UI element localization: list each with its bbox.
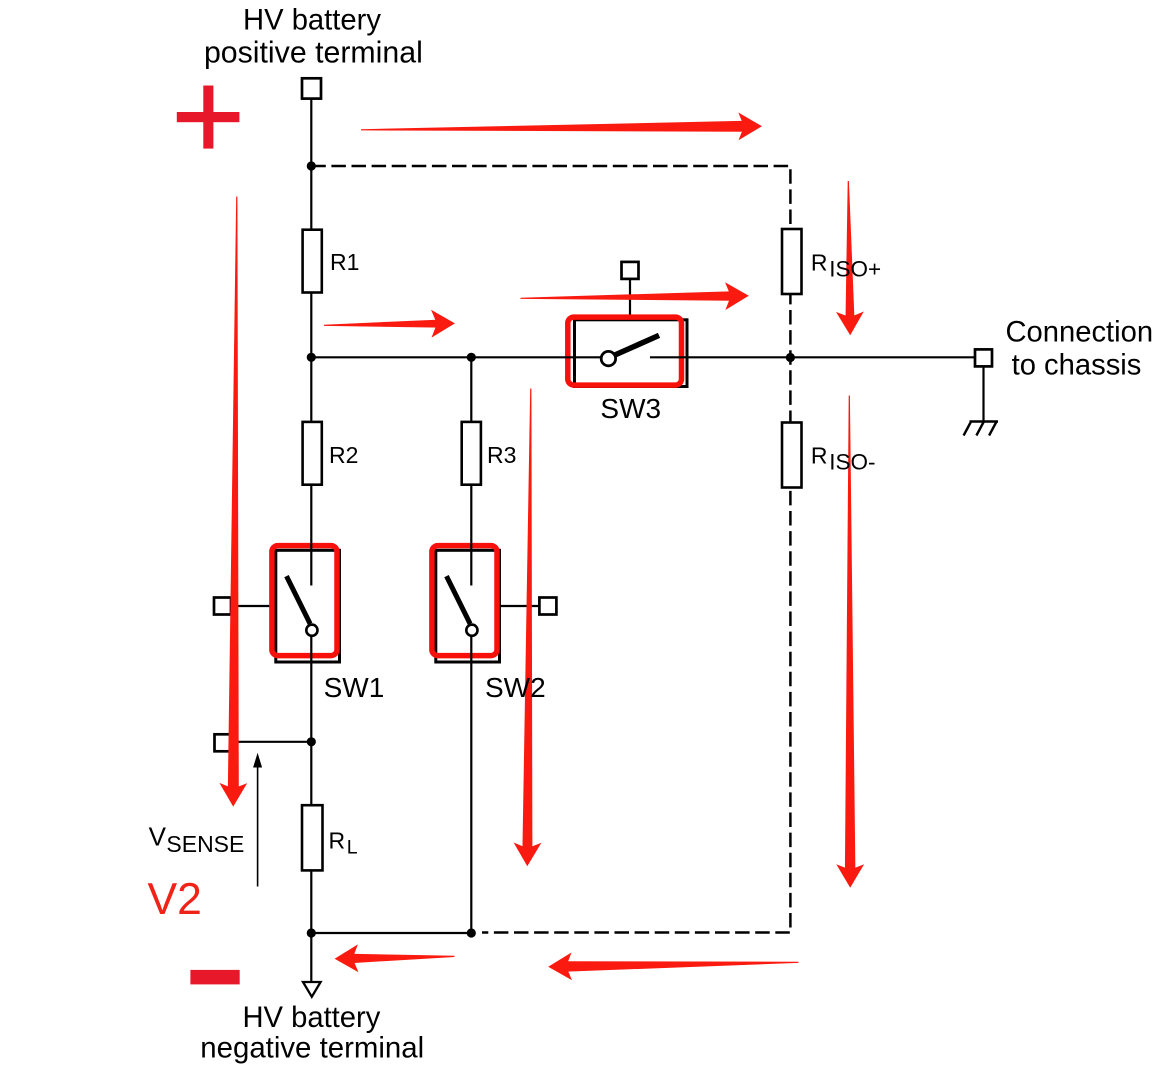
svg-text:HV battery: HV battery [242,1002,380,1034]
svg-text:ISO+: ISO+ [829,256,881,281]
svg-text:L: L [347,837,358,859]
svg-text:to chassis: to chassis [1012,349,1142,381]
svg-text:HV battery: HV battery [243,5,381,37]
svg-text:SW1: SW1 [324,672,385,703]
svg-text:ISO-: ISO- [829,450,875,475]
svg-text:SENSE: SENSE [166,831,244,857]
svg-text:R: R [811,249,828,275]
svg-text:positive terminal: positive terminal [204,37,423,70]
svg-text:Connection: Connection [1005,317,1153,349]
svg-text:R: R [329,828,346,854]
svg-text:R: R [811,443,828,469]
svg-text:V2: V2 [148,875,202,924]
svg-text:R3: R3 [487,442,516,468]
svg-text:SW3: SW3 [600,393,661,424]
svg-text:negative terminal: negative terminal [200,1032,424,1065]
svg-text:V: V [149,822,167,852]
svg-text:R2: R2 [329,442,358,468]
svg-text:R1: R1 [330,249,359,275]
svg-text:SW2: SW2 [485,672,546,703]
